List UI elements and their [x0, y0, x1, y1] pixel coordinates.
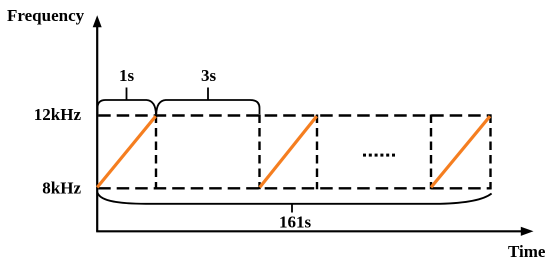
- vertical dashed line at end of 3s gap: [258, 115, 260, 190]
- svg-text:161s: 161s: [279, 213, 312, 232]
- svg-text:1s: 1s: [119, 66, 135, 85]
- chirp 3 (orange ramp): [431, 116, 490, 187]
- 8kHz dashed horizontal line: [98, 187, 491, 189]
- y-axis: [96, 25, 98, 232]
- brace 3s center tick: [207, 88, 209, 101]
- vertical dashed line at end of chirp 1: [155, 115, 157, 190]
- bottom brace for 161s: [97, 193, 491, 204]
- svg-text:12kHz: 12kHz: [34, 105, 82, 124]
- x-axis arrowhead: [521, 227, 534, 236]
- svg-text:3s: 3s: [201, 66, 217, 85]
- bottom brace center tick: [291, 204, 293, 213]
- y-axis arrowhead: [93, 15, 102, 27]
- brace for 1s: [98, 100, 156, 114]
- ellipsis dots: [363, 154, 395, 157]
- chirp 2 (orange ramp): [260, 116, 317, 187]
- svg-text:Time: Time: [508, 242, 546, 261]
- brace 1s center tick: [126, 88, 128, 101]
- 12kHz dashed horizontal line: [98, 114, 491, 116]
- svg-text:8kHz: 8kHz: [42, 179, 81, 198]
- vertical dashed line at start of last box: [430, 115, 432, 190]
- vertical dashed line at end of last box: [489, 115, 491, 190]
- x-axis: [96, 230, 522, 232]
- svg-text:Frequency: Frequency: [7, 6, 85, 25]
- vertical dashed line at end of chirp 2: [316, 115, 318, 190]
- brace for 3s: [156, 100, 259, 114]
- chirp 1 (orange ramp): [97, 116, 156, 187]
